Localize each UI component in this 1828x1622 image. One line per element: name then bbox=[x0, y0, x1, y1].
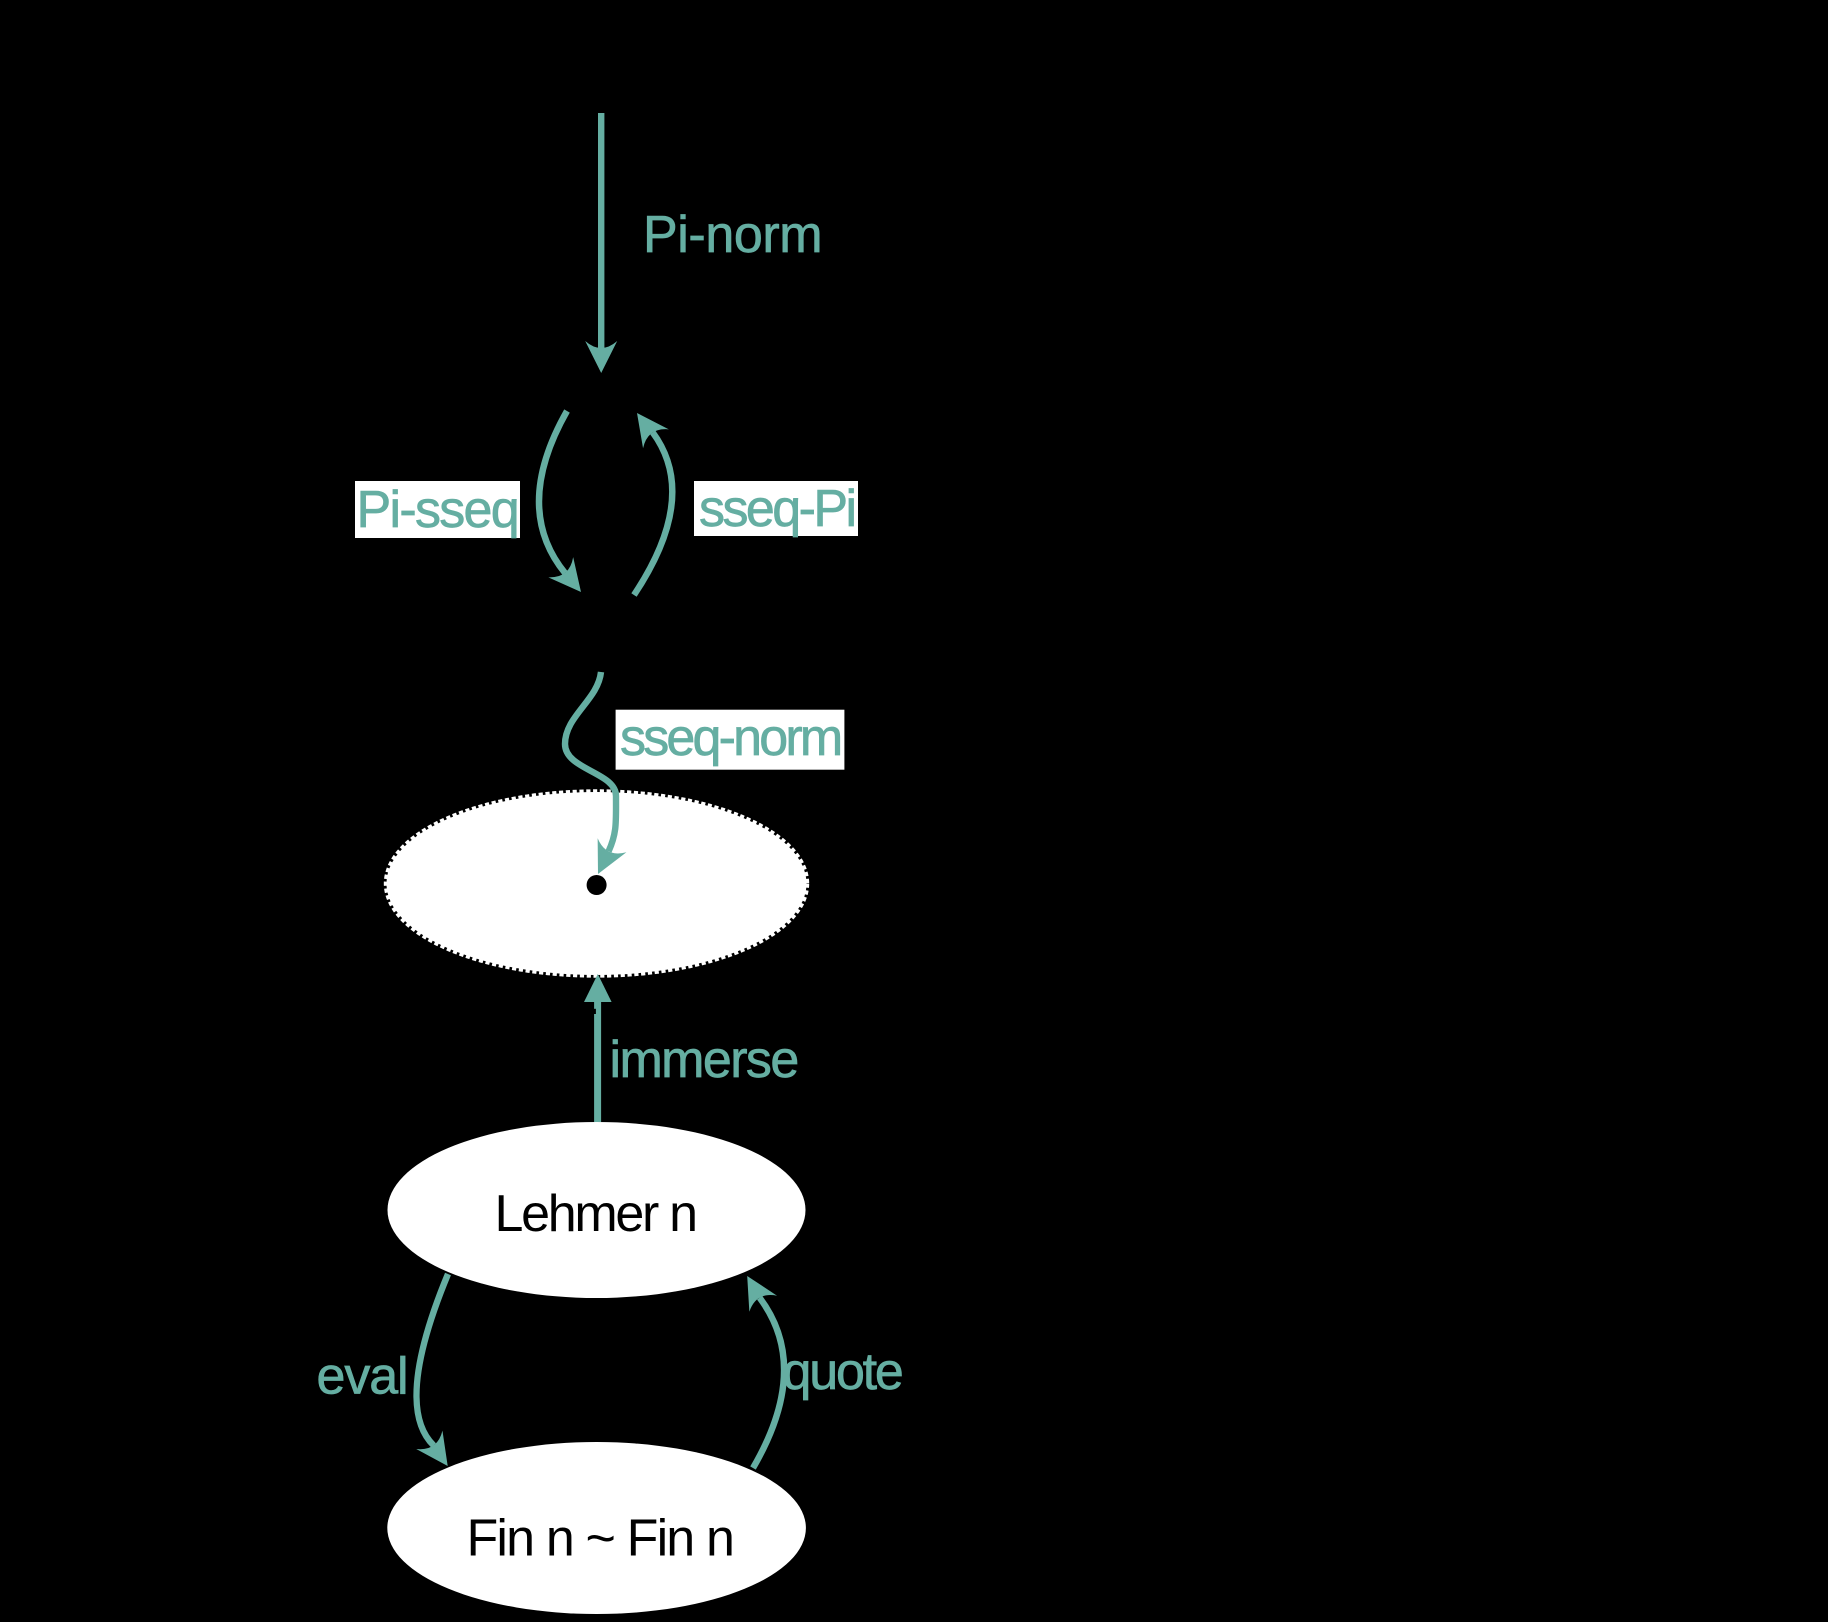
wire eval arc bbox=[416, 1274, 448, 1446]
wire quote arc bbox=[753, 1298, 784, 1468]
svg-text:Pi-sseq: Pi-sseq bbox=[357, 481, 519, 539]
wire Pi-norm arrowhead bbox=[585, 341, 617, 373]
node ellipse Fin bbox=[387, 1442, 806, 1614]
wire sseq-norm arrowhead bbox=[584, 838, 627, 881]
wire sseq-Pi arc bbox=[634, 432, 672, 595]
wire quote arrowhead bbox=[733, 1268, 777, 1312]
hidden node mark on immerse shaft bbox=[593, 1009, 596, 1014]
wire sseq-Pi arrowhead bbox=[624, 404, 669, 449]
svg-text:sseq-Pi: sseq-Pi bbox=[699, 480, 855, 538]
wire Pi-sseq arrowhead bbox=[548, 557, 593, 602]
svg-text:Lehmer n: Lehmer n bbox=[495, 1185, 696, 1243]
wire Pi-sseq arc bbox=[539, 411, 567, 573]
node label Pi-sseq bbox=[355, 481, 520, 539]
node ellipse Lehmer bbox=[388, 1122, 806, 1298]
node label sseq-Pi bbox=[694, 480, 858, 538]
svg-text:Fin n ~ Fin n: Fin n ~ Fin n bbox=[467, 1510, 734, 1568]
wire immerse arrow shaft bbox=[594, 1000, 601, 1122]
node label sseq-norm bbox=[616, 709, 845, 770]
svg-text:quote: quote bbox=[783, 1343, 902, 1401]
node dashed ellipse bbox=[387, 792, 807, 975]
wire Pi-norm arrow shaft bbox=[598, 113, 604, 350]
svg-text:sseq-norm: sseq-norm bbox=[620, 709, 840, 767]
node center dot bbox=[587, 875, 607, 895]
svg-text:Pi-norm: Pi-norm bbox=[643, 206, 822, 264]
svg-text:immerse: immerse bbox=[610, 1031, 798, 1089]
wire sseq-norm squiggle bbox=[565, 672, 616, 851]
wire immerse arrowhead triangle bbox=[584, 974, 612, 1002]
wire eval arrowhead bbox=[416, 1431, 461, 1476]
svg-text:eval: eval bbox=[317, 1348, 408, 1406]
